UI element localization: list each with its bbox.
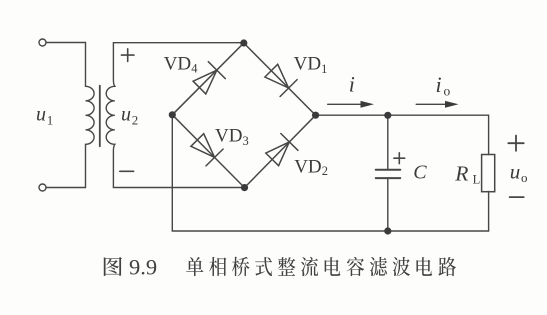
svg-text:C: C [413, 162, 427, 184]
svg-text:i: i [349, 71, 355, 96]
svg-text:VD: VD [215, 126, 242, 147]
svg-text:1: 1 [321, 62, 327, 76]
svg-text:9.9: 9.9 [129, 255, 157, 280]
svg-text:1: 1 [47, 113, 54, 128]
svg-text:u: u [510, 160, 521, 184]
svg-text:u: u [36, 104, 46, 126]
svg-text:3: 3 [243, 134, 249, 148]
svg-text:4: 4 [191, 61, 198, 75]
svg-text:2: 2 [322, 164, 328, 178]
svg-text:L: L [473, 172, 481, 186]
svg-text:2: 2 [132, 113, 139, 128]
svg-text:VD: VD [294, 156, 321, 177]
svg-text:o: o [521, 170, 528, 185]
svg-text:VD: VD [164, 54, 191, 75]
svg-text:u: u [121, 104, 131, 126]
svg-text:VD: VD [294, 53, 321, 74]
svg-text:R: R [454, 161, 468, 185]
svg-text:o: o [444, 83, 451, 98]
svg-text:i: i [436, 72, 442, 97]
